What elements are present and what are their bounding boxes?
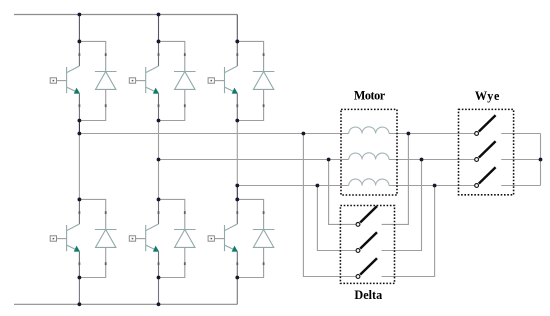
- wire: phase C tap down to Delta switch 2: [317, 186, 356, 251]
- node at (158,120): [157, 119, 161, 123]
- transistor Q4 (IGBT): [67, 224, 80, 251]
- wire: Wye neutral vertical: [540, 134, 542, 186]
- emitter arrow of Q4: [74, 246, 80, 252]
- wire: gate G5 to base of Q5: [136, 238, 146, 240]
- wire: leg 2 vertical (lower junction to bottom bus): [158, 278, 160, 305]
- svg-text:Wye: Wye: [475, 89, 500, 103]
- gate terminal G6: [208, 236, 214, 241]
- transistor Q6 (IGBT): [225, 224, 238, 251]
- svg-text:Motor: Motor: [354, 89, 386, 103]
- wire joint tick: [263, 53, 265, 56]
- emitter arrow of Q3: [232, 88, 238, 94]
- node at (79,134): [78, 132, 82, 136]
- wire: leg 3 vertical (branch to collector): [236, 41, 238, 66]
- transistor Q1 (IGBT): [67, 66, 80, 93]
- Motor dotted box: [341, 109, 397, 195]
- gate terminal G4: [50, 236, 56, 241]
- wire joint tick: [158, 104, 160, 107]
- wire: leg 3 vertical (emitter to junction): [236, 94, 238, 121]
- wire: node to diode D3 top: [237, 41, 263, 71]
- wire joint tick: [184, 53, 186, 56]
- wire: phase A winding output to Wye switch: [389, 133, 475, 135]
- wire: phase B winding output to Wye switch: [389, 159, 475, 161]
- wire: leg 3 vertical (top bus to branch): [236, 15, 238, 42]
- inductor L1 (motor winding A): [349, 127, 389, 134]
- emitter arrow of Q1: [74, 88, 80, 94]
- gate terminal G2: [129, 78, 135, 83]
- wire: leg 3 vertical (lower junction to bottom bus): [236, 278, 238, 305]
- wire: node to diode D6 top: [237, 199, 263, 229]
- wire joint tick: [263, 262, 265, 265]
- wire: phase C from inverter to motor winding: [237, 185, 348, 187]
- transistor Q2 (IGBT): [146, 66, 159, 93]
- transistor Q5 (IGBT): [146, 224, 159, 251]
- wire: Wye switch C output to neutral bus: [501, 185, 540, 187]
- diode D2: [174, 72, 196, 90]
- wire joint tick: [236, 104, 238, 107]
- wire: leg 1 vertical (lower junction to bottom bus): [78, 278, 80, 305]
- wire: diode D2 bottom to leg: [159, 89, 185, 120]
- switch SD1 (Delta): [356, 206, 377, 226]
- node at (303,134): [302, 132, 306, 136]
- wire: leg 1 vertical (lower branch to lower collector): [78, 199, 80, 224]
- node at (540,160): [539, 158, 543, 162]
- inductor L2 (motor winding B): [349, 153, 389, 160]
- node at (158,199): [157, 198, 161, 202]
- wire: gate G6 to base of Q6: [214, 238, 224, 240]
- diode D1: [95, 72, 117, 90]
- wire joint tick: [236, 211, 238, 214]
- switch SW3 (Wye): [475, 167, 496, 187]
- wire joint tick: [105, 262, 107, 265]
- wire: leg 2 vertical (emitter to junction): [158, 94, 160, 121]
- diode D4: [95, 230, 117, 248]
- wire joint tick: [105, 53, 107, 56]
- wire: node to diode D5 top: [159, 199, 185, 229]
- switch SW2 (Wye): [475, 141, 496, 161]
- wire: Wye switch B output to neutral bus: [501, 159, 540, 161]
- wire: positive DC bus: [14, 14, 237, 16]
- wire: leg 2 vertical (lower emitter to lower junction): [158, 252, 160, 278]
- wire joint tick: [236, 262, 238, 265]
- node at (79,199): [78, 198, 82, 202]
- wire joint tick: [263, 211, 265, 214]
- wire: leg 2 vertical (junction to phase node): [158, 121, 160, 160]
- node at (237,120): [235, 119, 239, 123]
- wire: node to diode D1 top: [79, 41, 105, 71]
- wire: Delta switch 2 output up to phase B: [382, 160, 422, 251]
- wire joint tick: [236, 53, 238, 56]
- wire joint tick: [105, 211, 107, 214]
- wire: diode D5 bottom to leg: [159, 247, 185, 277]
- wire: gate G1 to base of Q1: [57, 80, 67, 82]
- node at (79,278): [78, 276, 82, 280]
- emitter arrow of Q6: [232, 246, 238, 252]
- wire: phase B tap down to Delta switch 1: [329, 160, 357, 225]
- node at (317,186): [316, 184, 320, 188]
- wire: leg 2 vertical (branch to collector): [158, 41, 160, 66]
- emitter arrow of Q2: [153, 88, 159, 94]
- node at (158,160): [157, 158, 161, 162]
- switch SD2 (Delta): [356, 232, 377, 252]
- wire: diode D4 bottom to leg: [79, 247, 105, 277]
- node at (237,199): [235, 198, 239, 202]
- node at (329,160): [327, 158, 331, 162]
- node at (79,120): [78, 119, 82, 123]
- wire: leg 1 vertical (phase node to lower branch): [78, 134, 80, 200]
- wire: phase A tap down to Delta switch 3: [303, 134, 356, 277]
- diode D6: [253, 230, 275, 248]
- node at (79,41): [78, 40, 82, 44]
- diode D5: [174, 230, 196, 248]
- wire joint tick: [184, 262, 186, 265]
- wire joint tick: [158, 53, 160, 56]
- wire: leg 1 vertical (top bus to branch): [78, 15, 80, 42]
- wire joint tick: [184, 211, 186, 214]
- switch SW1 (Wye): [475, 115, 496, 135]
- wire joint tick: [79, 104, 81, 107]
- emitter arrow of Q5: [153, 246, 159, 252]
- wire: phase C winding output to Wye switch: [389, 185, 475, 187]
- Wye dotted box: [459, 109, 514, 194]
- wire: Delta switch 3 output up to phase C: [382, 186, 435, 277]
- node at (408,134): [407, 132, 411, 136]
- node at (237,278): [235, 276, 239, 280]
- wire: leg 1 vertical (junction to phase node): [78, 121, 80, 134]
- wire joint tick: [79, 53, 81, 56]
- node at (158,304): [157, 302, 161, 306]
- wire joint tick: [105, 104, 107, 107]
- inductor L3 (motor winding C): [349, 179, 389, 186]
- node at (237,186): [235, 184, 239, 188]
- wire: gate G3 to base of Q3: [214, 80, 224, 82]
- node at (237,41): [235, 40, 239, 44]
- gate terminal G3: [208, 78, 214, 83]
- wire joint tick: [184, 104, 186, 107]
- wire joint tick: [263, 104, 265, 107]
- wire: diode D3 bottom to leg: [237, 89, 263, 120]
- svg-text:Delta: Delta: [354, 288, 382, 302]
- wire: leg 2 vertical (lower branch to lower collector): [158, 199, 160, 224]
- wire joint tick: [79, 211, 81, 214]
- node at (422,160): [420, 158, 424, 162]
- wire: diode D1 bottom to leg: [79, 89, 105, 120]
- gate terminal G5: [129, 236, 135, 241]
- transistor Q3 (IGBT): [225, 66, 238, 93]
- wire: phase B from inverter to motor winding: [159, 159, 349, 161]
- wire: leg 3 vertical (junction to phase node): [236, 121, 238, 186]
- wire: node to diode D4 top: [79, 199, 105, 229]
- wire: leg 2 vertical (top bus to branch): [158, 15, 160, 42]
- node at (158,41): [157, 40, 161, 44]
- node at (435,186): [433, 184, 437, 188]
- wire: diode D6 bottom to leg: [237, 247, 263, 277]
- wire joint tick: [79, 262, 81, 265]
- wire: Wye switch A output to neutral bus: [501, 133, 540, 135]
- wire: leg 1 vertical (emitter to junction): [78, 94, 80, 121]
- wire joint tick: [158, 211, 160, 214]
- switch SD3 (Delta): [356, 258, 377, 278]
- wire: phase A from inverter to motor winding: [79, 133, 348, 135]
- wire: leg 3 vertical (lower branch to lower collector): [236, 199, 238, 224]
- wire: leg 1 vertical (lower emitter to lower junction): [78, 252, 80, 278]
- wire: negative DC bus: [14, 303, 237, 305]
- node at (79,304): [78, 302, 82, 306]
- node at (79,14): [78, 13, 82, 17]
- wire joint tick: [158, 262, 160, 265]
- wire: leg 1 vertical (branch to collector): [78, 41, 80, 66]
- diode D3: [253, 72, 275, 90]
- node at (158,14): [157, 13, 161, 17]
- wire: leg 2 vertical (phase node to lower branch): [158, 160, 160, 200]
- gate terminal G1: [50, 78, 56, 83]
- node at (158,278): [157, 276, 161, 280]
- wire: node to diode D2 top: [159, 41, 185, 71]
- wire: leg 3 vertical (phase node to lower branch): [236, 186, 238, 200]
- wire: gate G4 to base of Q4: [57, 238, 67, 240]
- Delta dotted box: [340, 206, 394, 284]
- wire: Delta switch 1 output up to phase A: [382, 134, 409, 225]
- wire: gate G2 to base of Q2: [136, 80, 146, 82]
- wire: leg 3 vertical (lower emitter to lower junction): [236, 252, 238, 278]
